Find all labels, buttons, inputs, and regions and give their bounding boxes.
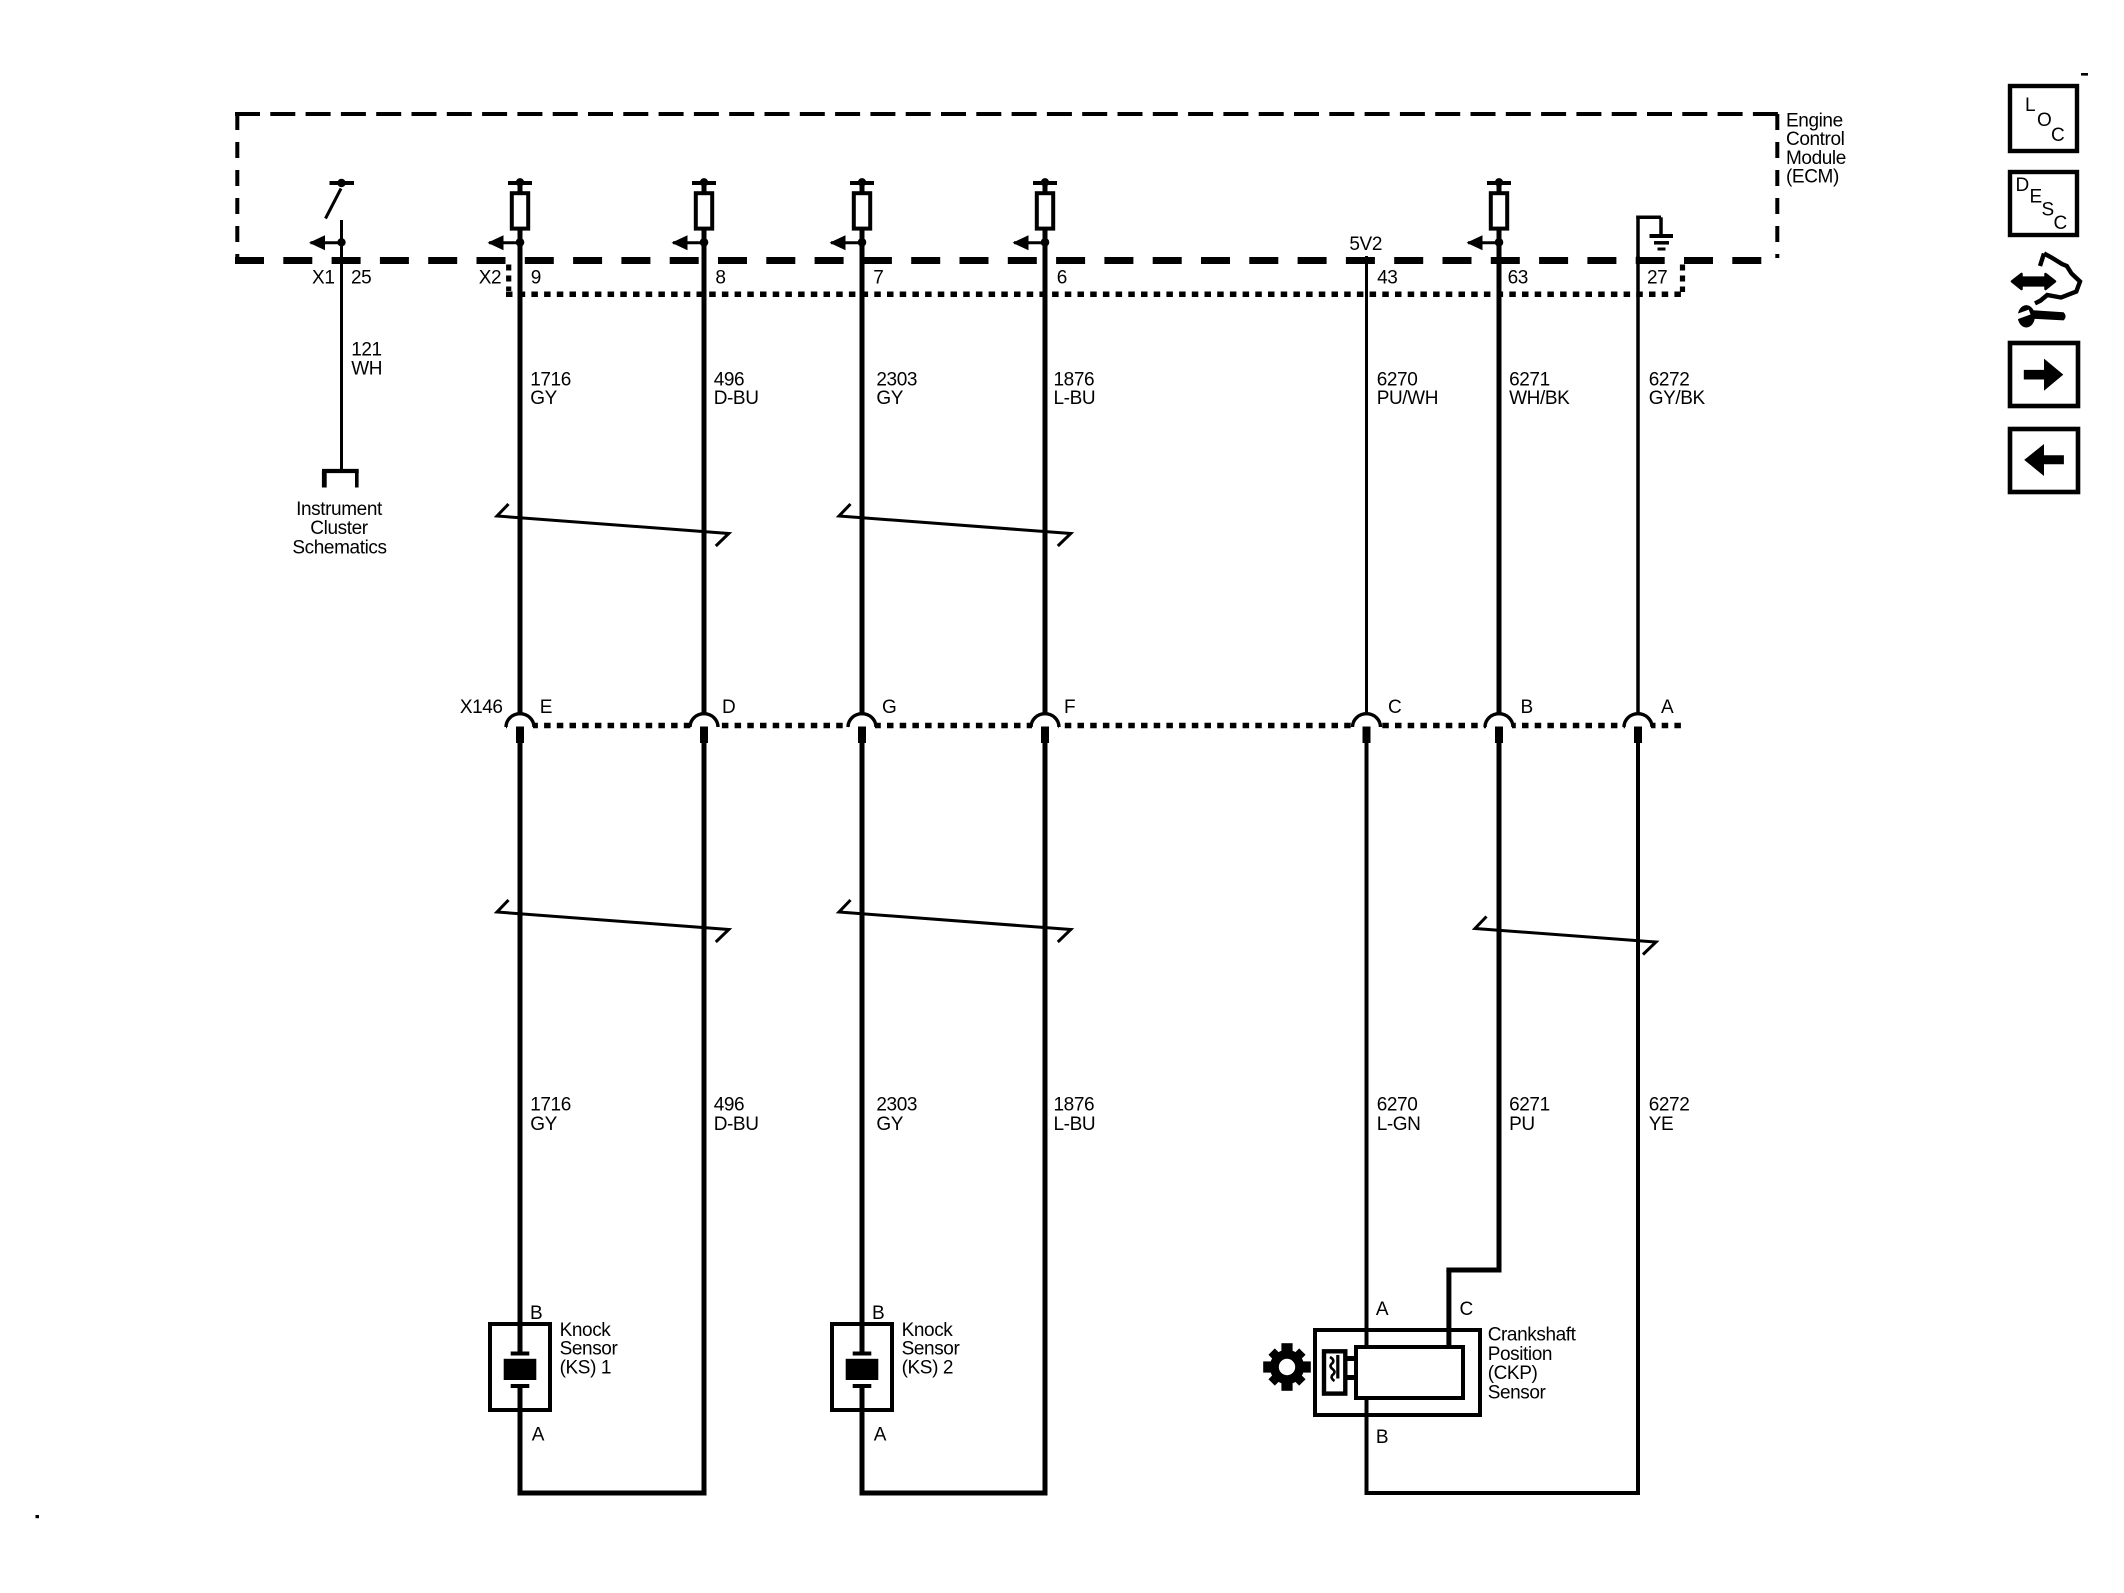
svg-text:2303: 2303 <box>876 1095 917 1116</box>
X146 male pin stub C <box>1363 727 1371 744</box>
svg-text:A: A <box>532 1425 545 1446</box>
X146 female terminal arc at pin F <box>1032 722 1058 729</box>
wire 1876 L-BU upper segment <box>1043 244 1048 713</box>
tiny page mark bottom left <box>36 1515 40 1518</box>
wire label 496 D-BU lower <box>714 1095 759 1136</box>
svg-text:E: E <box>540 697 552 718</box>
svg-text:Sensor: Sensor <box>1488 1382 1547 1403</box>
wire label 496 D-BU upper <box>714 369 759 409</box>
svg-text:L-GN: L-GN <box>1377 1114 1421 1135</box>
svg-text:GY: GY <box>530 388 557 409</box>
X146 female terminal arc at pin A <box>1625 722 1651 729</box>
wire 496 D-BU lower segment (KS1 return) <box>702 741 707 1496</box>
X146 male pin stub F <box>1041 727 1049 744</box>
svg-text:Position: Position <box>1488 1344 1552 1365</box>
wire label 6270 L-GN lower <box>1377 1095 1421 1136</box>
X146 male pin stub G <box>858 727 866 744</box>
connector X146 dotted line <box>506 723 1682 729</box>
X146 male pin stub E <box>516 727 524 744</box>
back arrow navigation box <box>2010 429 2078 492</box>
wire 6270 PU/WH upper segment <box>1365 256 1368 713</box>
wire 1716 GY upper segment <box>518 244 523 713</box>
svg-text:YE: YE <box>1649 1114 1674 1135</box>
ECM name label Engine Control Module (ECM) <box>1786 111 1846 188</box>
wire label 2303 GY lower <box>876 1095 917 1136</box>
connector X2 dotted line <box>506 265 1684 295</box>
twisted pair marker upper KS1 pair <box>497 504 729 546</box>
svg-text:Crankshaft: Crankshaft <box>1488 1325 1577 1346</box>
svg-text:A: A <box>1661 697 1674 718</box>
wire 1876 L-BU lower segment (KS2 return) <box>1043 741 1048 1496</box>
svg-text:121: 121 <box>351 340 382 361</box>
svg-text:C: C <box>1388 697 1401 718</box>
DESC navigation box <box>2010 172 2077 235</box>
svg-text:63: 63 <box>1508 267 1528 288</box>
svg-text:GY: GY <box>876 1114 903 1135</box>
svg-text:43: 43 <box>1377 267 1397 288</box>
svg-text:D: D <box>2016 175 2029 196</box>
svg-text:B: B <box>530 1303 542 1324</box>
wire label 6272 YE lower <box>1649 1095 1690 1136</box>
wire 6270 L-GN lower segment <box>1365 741 1369 1349</box>
svg-text:B: B <box>1521 697 1533 718</box>
svg-text:B: B <box>1376 1427 1388 1448</box>
svg-text:WH/BK: WH/BK <box>1509 388 1570 409</box>
wire label 1716 GY lower <box>530 1095 571 1136</box>
wire KS1 bottom loop <box>518 1412 523 1493</box>
instrument cluster connector symbol <box>322 471 359 488</box>
X146 male pin stub D <box>700 727 708 744</box>
wire 6272 GY/BK upper segment <box>1636 256 1640 713</box>
gear reluctor wheel icon <box>1263 1343 1311 1391</box>
resistor inside ECM at pin 8 <box>672 178 717 250</box>
svg-text:496: 496 <box>714 369 745 390</box>
LOC navigation box <box>2010 86 2077 151</box>
svg-text:5V2: 5V2 <box>1349 234 1382 255</box>
wire 2303 GY lower segment <box>860 741 865 1324</box>
svg-text:D-BU: D-BU <box>714 388 759 409</box>
X146 female terminal arc at pin G <box>849 722 875 729</box>
svg-text:6272: 6272 <box>1649 369 1690 390</box>
X146 female terminal arc at pin B <box>1486 722 1512 729</box>
knock sensor KS 2 <box>832 1303 960 1446</box>
svg-text:8: 8 <box>715 267 725 288</box>
wire label 6270 PU/WH upper <box>1377 369 1438 409</box>
wire KS2 bottom loop <box>860 1412 865 1493</box>
svg-text:9: 9 <box>531 267 541 288</box>
svg-text:6270: 6270 <box>1377 1095 1418 1116</box>
svg-text:(ECM): (ECM) <box>1786 166 1839 187</box>
svg-text:X146: X146 <box>460 697 503 718</box>
svg-text:S: S <box>2042 200 2054 221</box>
wire label 1876 L-BU lower <box>1054 1095 1096 1136</box>
wire 2303 GY upper segment <box>860 244 865 713</box>
wire label 1716 GY upper <box>530 369 571 409</box>
svg-text:PU/WH: PU/WH <box>1377 388 1438 409</box>
wire 121 WH from ECM pin 25 <box>340 244 343 469</box>
twisted pair marker upper KS2 pair <box>839 504 1071 546</box>
svg-text:1876: 1876 <box>1054 1095 1095 1116</box>
svg-text:496: 496 <box>714 1095 745 1116</box>
tiny page mark top right <box>2081 73 2088 76</box>
wire CKP bottom loop 6272 return <box>1365 1396 1369 1495</box>
X146 female terminal arc at pin E <box>507 722 533 729</box>
svg-text:6271: 6271 <box>1509 1095 1550 1116</box>
resistor inside ECM at pin 9 <box>488 178 533 250</box>
crankshaft position CKP sensor outer box <box>1315 1330 1480 1415</box>
svg-text:(KS) 2: (KS) 2 <box>902 1357 953 1378</box>
svg-text:WH: WH <box>351 359 382 380</box>
resistor inside ECM at pin 63 <box>1467 178 1512 250</box>
svg-text:O: O <box>2037 110 2051 131</box>
svg-text:Cluster: Cluster <box>310 518 368 539</box>
X146 female terminal arc at pin D <box>691 722 717 729</box>
svg-text:X2: X2 <box>479 267 501 288</box>
svg-text:F: F <box>1064 697 1075 718</box>
svg-text:Schematics: Schematics <box>292 537 386 558</box>
wire label 121 WH <box>351 340 382 380</box>
svg-text:Instrument: Instrument <box>296 499 383 520</box>
svg-text:25: 25 <box>351 267 371 288</box>
svg-text:6271: 6271 <box>1509 369 1550 390</box>
wire 1716 GY lower segment <box>518 741 523 1324</box>
svg-text:B: B <box>872 1303 884 1324</box>
wire label 2303 GY upper <box>876 369 917 409</box>
svg-text:D: D <box>722 697 735 718</box>
svg-text:27: 27 <box>1647 267 1667 288</box>
CKP sensor pickup element <box>1324 1351 1345 1393</box>
CKP pickup to element connecting stubs <box>1345 1356 1356 1361</box>
svg-text:1716: 1716 <box>530 369 571 390</box>
svg-text:GY: GY <box>876 388 903 409</box>
svg-text:6272: 6272 <box>1649 1095 1690 1116</box>
forward arrow navigation box <box>2010 343 2078 406</box>
label Instrument Cluster Schematics <box>292 499 386 558</box>
svg-text:GY/BK: GY/BK <box>1649 388 1706 409</box>
svg-text:6: 6 <box>1057 267 1067 288</box>
svg-text:1876: 1876 <box>1054 369 1095 390</box>
svg-text:A: A <box>874 1425 887 1446</box>
svg-text:(KS) 1: (KS) 1 <box>560 1357 611 1378</box>
X146 male pin stub A <box>1634 727 1642 744</box>
resistor inside ECM at pin 6 <box>1013 178 1058 250</box>
twisted pair marker lower KS2 pair <box>839 900 1071 942</box>
knock sensor KS 1 <box>490 1303 618 1446</box>
ground symbol inside ECM at pin 27 <box>1636 216 1673 259</box>
wire label 6271 WH/BK upper <box>1509 369 1570 409</box>
X146 male pin stub B <box>1495 727 1503 744</box>
svg-text:E: E <box>2030 187 2042 208</box>
wrench and connector jump icon <box>2012 254 2080 328</box>
svg-text:1716: 1716 <box>530 1095 571 1116</box>
svg-text:L: L <box>2025 95 2035 116</box>
svg-text:PU: PU <box>1509 1114 1535 1135</box>
X146 female terminal arc at pin C <box>1354 722 1380 729</box>
ECM module dashed box border <box>235 114 1779 261</box>
svg-text:2303: 2303 <box>876 369 917 390</box>
svg-text:C: C <box>2051 125 2064 146</box>
svg-text:A: A <box>1376 1299 1389 1320</box>
CKP sensor inner box <box>1356 1347 1463 1398</box>
svg-text:7: 7 <box>873 267 883 288</box>
svg-text:(CKP): (CKP) <box>1488 1363 1538 1384</box>
wire label 6271 PU lower <box>1509 1095 1550 1136</box>
svg-text:6270: 6270 <box>1377 369 1418 390</box>
svg-text:X1: X1 <box>312 267 334 288</box>
wire 496 D-BU upper segment <box>702 244 707 713</box>
svg-text:GY: GY <box>530 1114 557 1135</box>
svg-text:L-BU: L-BU <box>1054 388 1096 409</box>
wire 6271 PU lower segment with jog <box>1497 741 1502 1273</box>
svg-text:L-BU: L-BU <box>1054 1114 1096 1135</box>
resistor inside ECM at pin 7 <box>830 178 875 250</box>
svg-text:C: C <box>1460 1299 1473 1320</box>
twisted pair marker lower KS1 pair <box>497 900 729 942</box>
label Crankshaft Position (CKP) Sensor <box>1488 1325 1577 1404</box>
twisted pair marker lower CKP pair <box>1475 917 1656 955</box>
wire label 1876 L-BU upper <box>1054 369 1096 409</box>
wire label 6272 GY/BK upper <box>1649 369 1706 409</box>
svg-text:G: G <box>882 697 896 718</box>
switch inside ECM at pin X1 25 <box>309 179 354 251</box>
svg-text:D-BU: D-BU <box>714 1114 759 1135</box>
wire 6271 WH/BK upper segment <box>1497 244 1502 713</box>
svg-text:C: C <box>2054 213 2067 234</box>
wire 6272 YE lower segment <box>1636 741 1640 1495</box>
